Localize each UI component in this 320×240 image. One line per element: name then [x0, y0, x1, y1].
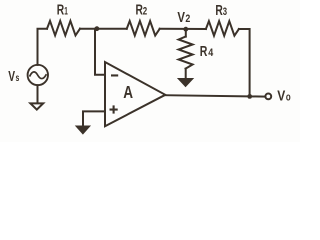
svg-text:V: V	[277, 87, 286, 104]
svg-text:4: 4	[208, 47, 214, 59]
label minus input	[111, 74, 118, 76]
resistor R4	[179, 37, 193, 69]
resistor R1	[47, 21, 80, 36]
svg-text:s: s	[16, 73, 20, 84]
label R3	[215, 2, 227, 19]
svg-text:1: 1	[64, 5, 68, 17]
svg-text:R: R	[136, 2, 143, 19]
wire R2 to R3	[160, 28, 206, 30]
svg-text:A: A	[123, 82, 133, 102]
svg-text:R: R	[200, 43, 208, 60]
wire V2 down to R4	[185, 29, 187, 36]
label V2	[177, 9, 190, 26]
wire op-amp output to Vo	[164, 95, 265, 96]
wire R4 to ground	[185, 69, 187, 79]
node output junction	[247, 94, 252, 99]
label Vs	[8, 68, 19, 85]
label Vo	[277, 87, 291, 104]
wire node A down to inverting input	[95, 29, 105, 75]
wire R1 to R2	[80, 28, 127, 30]
wire R3 to output node	[239, 29, 250, 96]
label R2	[136, 2, 148, 19]
svg-text:2: 2	[185, 13, 190, 25]
ground (non-inverting input)	[77, 127, 89, 134]
resistor R3	[206, 21, 239, 36]
terminal Vo circle	[265, 94, 271, 100]
svg-text:2: 2	[143, 6, 147, 18]
node A (junction of R1, R2, inverting input)	[95, 26, 100, 31]
wire Vs bottom to ground	[37, 85, 39, 102]
node V2	[183, 27, 188, 32]
op-amp U1	[105, 62, 165, 126]
resistor R2	[127, 21, 160, 36]
wire non-inverting input to ground	[83, 111, 105, 125]
wire Vs top to R1	[38, 29, 48, 65]
label R4	[200, 43, 214, 60]
label R1	[57, 1, 68, 18]
voltage source Vs	[28, 65, 48, 85]
svg-text:3: 3	[223, 6, 227, 18]
ground (below Vs)	[30, 103, 43, 109]
label plus input	[110, 105, 118, 113]
svg-text:R: R	[57, 1, 64, 18]
svg-text:o: o	[286, 91, 291, 103]
ground (below R4)	[179, 79, 192, 86]
